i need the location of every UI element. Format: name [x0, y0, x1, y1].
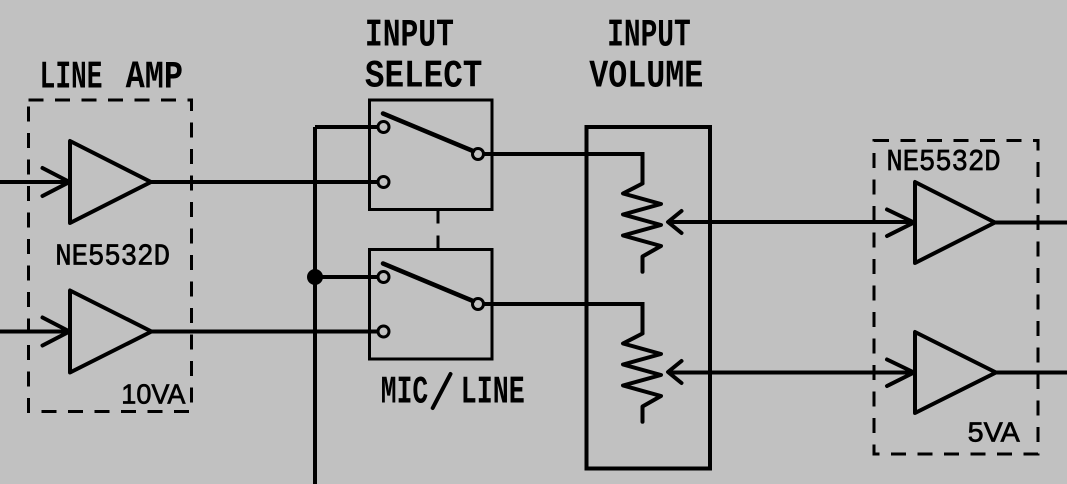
wire amp A4 output	[996, 371, 1067, 375]
arrowhead amp A4 input	[887, 360, 914, 387]
svg-text:INPUT: INPUT	[607, 14, 691, 58]
wire P2 wiper to amp A4	[668, 371, 915, 375]
wire S2 output to pot P2	[484, 304, 643, 334]
pot P2 wiper arrow	[668, 361, 682, 383]
svg-text:NE5532D: NE5532D	[886, 145, 1000, 180]
potentiometer P2 zigzag	[623, 334, 661, 422]
svg-text:NE5532D: NE5532D	[55, 240, 170, 275]
dashed box NE5532D right module	[874, 141, 1038, 455]
dashed box LINE AMP module	[29, 100, 192, 412]
svg-text:AMP: AMP	[126, 56, 183, 100]
arrowhead input 1	[43, 168, 70, 196]
pot P1 wiper arrow	[668, 211, 682, 233]
switch S1 pin right	[473, 149, 484, 160]
wire junction to S2 top pin	[315, 275, 378, 279]
switch S1 box	[370, 100, 493, 210]
wire amp2 output to switch S2 (crosses bus)	[152, 330, 379, 334]
svg-text:MIC: MIC	[381, 370, 428, 414]
svg-text:5VA: 5VA	[968, 417, 1020, 448]
wire bus to S1 top pin	[315, 125, 378, 129]
svg-text:SELECT: SELECT	[365, 55, 483, 99]
wire vertical bus	[313, 127, 317, 484]
switch S1 pin bottom-left	[378, 177, 389, 188]
switch S1 lever	[383, 114, 473, 152]
svg-text:10VA: 10VA	[121, 379, 185, 410]
slash of MIC/LINE	[433, 374, 451, 408]
switch S2 lever	[383, 264, 473, 302]
op-amp A2 lower line amp	[70, 291, 152, 373]
switch S2 pin top-left	[378, 272, 389, 283]
op-amp A1 upper line amp	[70, 141, 151, 223]
potentiometer P1 zigzag	[623, 184, 661, 272]
box INPUT VOLUME module	[587, 127, 711, 469]
junction dot	[307, 269, 323, 285]
wire amp A3 output	[995, 221, 1067, 225]
wire amp1 output to switch S1	[151, 180, 378, 184]
wire input 1	[0, 180, 70, 184]
op-amp A4 lower right	[915, 332, 996, 413]
switch S1 pin top-left	[378, 122, 389, 133]
wire P1 wiper to amp A3	[668, 220, 915, 224]
op-amp A3 upper right	[915, 182, 995, 263]
svg-text:LINE: LINE	[40, 56, 103, 100]
svg-text:LINE: LINE	[461, 370, 525, 414]
svg-text:VOLUME: VOLUME	[589, 55, 703, 99]
arrowhead input 2	[43, 318, 70, 346]
switch S2 box	[370, 250, 493, 360]
switch S2 pin right	[473, 299, 484, 310]
wire S1 output to pot P1	[484, 154, 643, 184]
arrowhead amp A3 input	[887, 210, 914, 237]
svg-text:INPUT: INPUT	[365, 14, 454, 58]
switch S2 pin bottom-left	[378, 326, 389, 337]
dashed linkage between switches	[437, 210, 440, 250]
wire input 2	[0, 330, 70, 334]
